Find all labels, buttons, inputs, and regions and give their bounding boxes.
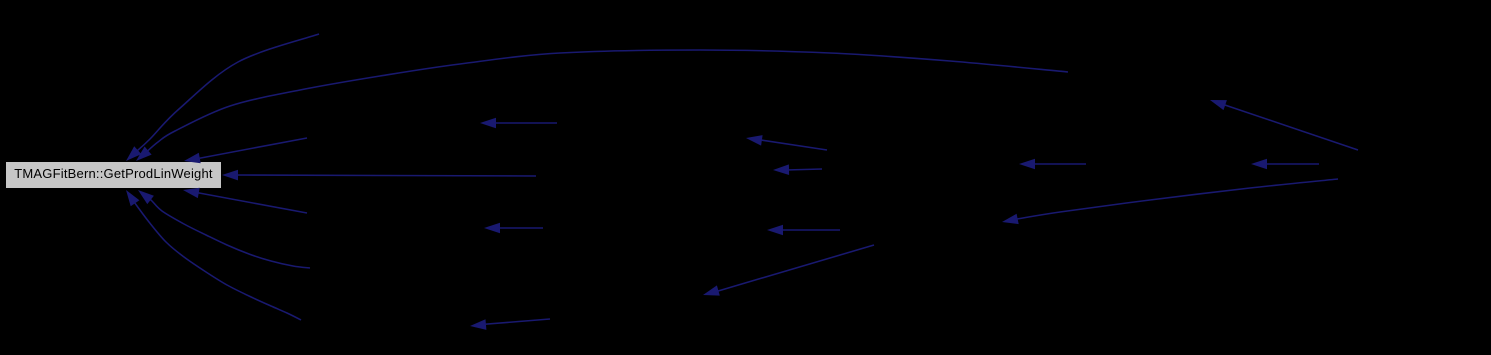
edge col3 -> col2 row295 (diagonal)	[703, 245, 874, 296]
edge caller row137 -> GetProdLinWeight (short line into top-right)	[184, 138, 307, 163]
edge col3 -> col2 row230	[767, 225, 840, 236]
edge col3b -> col2b row164	[1019, 159, 1086, 170]
edge col2 -> col1 row123	[480, 118, 557, 129]
edge col3 -> col2 row170	[773, 164, 822, 175]
edge col2 -> col1 row228	[484, 223, 543, 234]
edge col4 -> col3 row222 (long slight curve)	[1002, 179, 1338, 224]
edge col4 -> col3 row100 (diagonal up-left)	[1210, 100, 1358, 150]
edge caller row268 -> GetProdLinWeight (lower middle curve)	[138, 190, 310, 268]
edge col2 -> col1 row323	[470, 319, 550, 330]
edge col4 -> col3b row164	[1251, 159, 1319, 170]
node TMAGFitBern::GetProdLinWeight (current function)	[5, 161, 222, 189]
edge far caller -> GetProdLinWeight (long top curve)	[136, 50, 1068, 161]
edge mid caller -> GetProdLinWeight (long horizontal line)	[222, 170, 536, 181]
edge col3 -> col2 row138	[746, 135, 827, 150]
edge caller row214 -> GetProdLinWeight (short line into bottom-right)	[183, 188, 307, 213]
edge caller row321 -> GetProdLinWeight (lowest curve)	[126, 190, 301, 320]
edge caller TFltV-node -> GetProdLinWeight (upper short curve)	[126, 34, 319, 161]
